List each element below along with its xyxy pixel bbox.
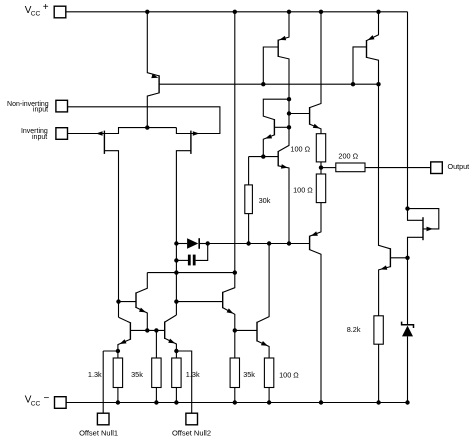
svg-text:30k: 30k bbox=[259, 196, 271, 205]
wire R8 bottom bbox=[234, 388, 236, 403]
node Q10e/Q11b bbox=[261, 154, 265, 158]
wire R5-R6 bbox=[320, 162, 322, 174]
transistor Q10 emitter arrow bbox=[265, 134, 272, 139]
resistor R4 30k bbox=[245, 185, 253, 214]
wire zener top bbox=[407, 258, 409, 325]
wire Q1 base rail y84 bbox=[159, 83, 378, 85]
terminal offset null 2 bbox=[186, 413, 198, 425]
node Q6 base bbox=[116, 299, 120, 303]
wire ON2 link bbox=[176, 351, 191, 413]
capacitor C1 left wire bbox=[176, 259, 188, 261]
node comp/Q11e bbox=[287, 241, 291, 245]
node R2top/line330 bbox=[154, 328, 158, 332]
transistor Q2 emitter arrow bbox=[96, 131, 103, 136]
wire Q12 collector bbox=[310, 12, 321, 108]
node V-/R3 bbox=[174, 400, 178, 404]
wire Q3 base bbox=[176, 151, 191, 315]
wire Q1 emitter bbox=[147, 12, 159, 76]
wire Q10 emitter bbox=[263, 135, 274, 157]
wire comp line bbox=[208, 243, 310, 245]
wire Q15 base bbox=[408, 209, 424, 221]
node output-tap bbox=[319, 165, 323, 169]
svg-text:1.3k: 1.3k bbox=[186, 370, 200, 379]
svg-text:−: − bbox=[44, 393, 50, 404]
wire cap right bbox=[196, 244, 208, 261]
transistor Q13 bar bbox=[309, 236, 311, 250]
wire Q11 base bbox=[249, 156, 279, 158]
resistor R9 100 bbox=[264, 358, 273, 388]
transistor Q5 bar bbox=[222, 292, 224, 308]
wire Q9 base bbox=[353, 47, 367, 84]
wire V+ to Q5 bbox=[223, 12, 235, 293]
wire Q5 emitter bbox=[223, 308, 235, 358]
wire x407 upper bbox=[407, 12, 409, 209]
wire Q16 emitter bbox=[257, 341, 269, 358]
transistor Q16 emitter arrow bbox=[261, 341, 268, 346]
node Q8 base/rail bbox=[261, 82, 265, 86]
svg-text:1.3k: 1.3k bbox=[88, 370, 102, 379]
node V+/Q9 bbox=[376, 10, 380, 14]
svg-text:100 Ω: 100 Ω bbox=[290, 145, 310, 154]
wire line330r bbox=[235, 329, 257, 331]
wire R2 top bbox=[155, 330, 157, 358]
node diode anode bbox=[174, 241, 178, 245]
wire R2 bottom bbox=[155, 388, 157, 403]
node Q14 base bbox=[405, 256, 409, 260]
transistor Q12 bar bbox=[309, 107, 311, 125]
transistor Q13 emitter arrow bbox=[311, 231, 318, 236]
terminal Vcc+ bbox=[54, 6, 66, 18]
wire Q8 base bbox=[263, 47, 278, 84]
transistor Q7 bar bbox=[129, 322, 131, 340]
node V+/x235 bbox=[233, 10, 237, 14]
node diode cathode bbox=[206, 241, 210, 245]
node Q8c/Q12b bbox=[287, 111, 291, 115]
svg-text:8.2k: 8.2k bbox=[347, 325, 361, 334]
wire Q15 bottom bbox=[408, 237, 424, 257]
node V-/D2 bbox=[405, 400, 409, 404]
transistor Q3 bar bbox=[190, 131, 192, 154]
node Q8c/Q10b bbox=[287, 125, 291, 129]
wire V+ rail bbox=[66, 11, 408, 13]
wire Q14 base bbox=[390, 257, 407, 259]
resistor R8 35k bbox=[230, 358, 239, 388]
wire line272 bbox=[147, 272, 235, 274]
resistor R3 1.3k bbox=[172, 358, 181, 388]
wire 30k top bbox=[248, 157, 250, 185]
wire to R7 bbox=[321, 167, 336, 169]
wire Q10 collector bbox=[263, 99, 289, 119]
wire Q3 collector step bbox=[176, 128, 191, 134]
wire Q16 collector bbox=[257, 244, 269, 323]
transistor Q4 bar bbox=[164, 322, 166, 339]
resistor R6 100 bbox=[316, 174, 325, 203]
wire V- rail bbox=[66, 402, 407, 404]
transistor Q14 emitter arrow bbox=[380, 265, 387, 269]
node Q6e/line330 bbox=[145, 328, 149, 332]
svg-text:input: input bbox=[33, 107, 48, 114]
transistor Q12 emitter arrow bbox=[313, 124, 320, 129]
node tail bbox=[145, 125, 149, 129]
svg-text:Offset Null1: Offset Null1 bbox=[79, 429, 118, 438]
wire Q13 emitter bbox=[310, 203, 321, 237]
svg-text:100 Ω: 100 Ω bbox=[293, 186, 313, 195]
wire Q2 collector step bbox=[104, 128, 176, 134]
wire Q7 base line bbox=[130, 329, 164, 331]
wire ON1 link bbox=[103, 351, 118, 358]
transistor Q8 bar bbox=[277, 40, 279, 57]
wire R9 bottom bbox=[268, 388, 270, 403]
wire Q6 base bbox=[119, 301, 137, 303]
svg-text:200 Ω: 200 Ω bbox=[338, 151, 358, 160]
terminal output bbox=[431, 162, 443, 174]
wire Q11 emitter bbox=[278, 166, 289, 244]
wire Q5 base bbox=[176, 301, 222, 303]
node V-/R1 bbox=[116, 400, 120, 404]
svg-text:Offset Null2: Offset Null2 bbox=[172, 429, 211, 438]
transistor Q1 bar bbox=[158, 75, 160, 93]
wire Q9 collector bbox=[367, 57, 391, 248]
wire Q1 collector bbox=[147, 93, 159, 128]
wire R3 bottom bbox=[175, 388, 177, 403]
svg-text:CC: CC bbox=[31, 400, 41, 407]
wire ON1 drop bbox=[102, 351, 104, 413]
node Q5 base/Q4c bbox=[174, 299, 178, 303]
wire Q12 emitter bbox=[310, 124, 321, 134]
wire Q6 collector bbox=[136, 273, 147, 293]
node Q9 base/rail bbox=[351, 82, 355, 86]
node ON1/R1 bbox=[116, 349, 120, 353]
node Q9c/rail bbox=[376, 82, 380, 86]
resistor R7 200 bbox=[336, 163, 365, 172]
transistor Q14 bar bbox=[389, 248, 391, 267]
wire Q13 collector bbox=[310, 250, 321, 403]
node V-/R10 bbox=[376, 400, 380, 404]
svg-text:100 Ω: 100 Ω bbox=[279, 370, 299, 379]
node V-/R2 bbox=[154, 400, 158, 404]
wire Q4 emitter bbox=[165, 338, 177, 358]
svg-text:35k: 35k bbox=[131, 370, 143, 379]
node line272/x235 bbox=[233, 270, 237, 274]
transistor Q2 bar bbox=[103, 131, 105, 154]
node Q4e/R3 bbox=[174, 349, 178, 353]
resistor R5 100 bbox=[316, 134, 325, 162]
node Q15 top bbox=[405, 206, 409, 210]
transistor Q1 emitter arrow bbox=[151, 74, 158, 78]
wire Q9 emitter bbox=[367, 12, 379, 41]
svg-text:CC: CC bbox=[31, 11, 41, 18]
svg-text:35k: 35k bbox=[243, 370, 255, 379]
wire zener bottom bbox=[407, 336, 409, 402]
wire Q6 emitter bbox=[136, 307, 147, 330]
wire Q14 emitter bbox=[379, 267, 391, 316]
node V-/Q13 bbox=[319, 400, 323, 404]
wire inv input bbox=[68, 133, 105, 135]
wire R7 to output bbox=[365, 167, 431, 169]
transistor Q5 emitter arrow bbox=[227, 308, 234, 313]
transistor Q3 emitter arrow bbox=[193, 131, 200, 136]
zener D2 bbox=[402, 322, 414, 328]
wire diode anode bbox=[176, 243, 187, 245]
wire non-inv input bbox=[68, 107, 220, 134]
svg-text:+: + bbox=[43, 2, 49, 13]
transistor Q15 emitter arrow bbox=[427, 227, 434, 232]
node V+/Q1 bbox=[145, 10, 149, 14]
transistor Q16 bar bbox=[256, 322, 258, 342]
transistor Q4 emitter arrow bbox=[168, 339, 175, 344]
svg-text:Output: Output bbox=[448, 162, 470, 171]
svg-text:input: input bbox=[32, 134, 47, 141]
node V-/R9 bbox=[267, 400, 271, 404]
terminal offset null 1 bbox=[97, 413, 109, 425]
resistor R10 8.2k bbox=[374, 316, 383, 344]
node comp/Q16c bbox=[267, 241, 271, 245]
wire Q12 base bbox=[289, 113, 310, 115]
wire R1 bottom bbox=[117, 388, 119, 403]
capacitor C1 bbox=[188, 255, 191, 266]
node V+/Q8 bbox=[287, 10, 291, 14]
node cap left bbox=[174, 258, 178, 262]
transistor Q10 bar bbox=[273, 119, 275, 135]
wire Q15 collector loop bbox=[408, 209, 439, 229]
resistor R2 35k bbox=[152, 358, 161, 388]
transistor Q6 emitter arrow bbox=[139, 308, 146, 313]
wire Q8 emitter bbox=[278, 12, 289, 40]
transistor Q11 emitter arrow bbox=[281, 164, 288, 169]
wire R10 bottom bbox=[378, 344, 380, 402]
node line272/Q3base bbox=[174, 270, 178, 274]
node Q5e/line330r bbox=[233, 328, 237, 332]
node V-/R8 bbox=[233, 400, 237, 404]
transistor Q6 bar bbox=[135, 292, 137, 308]
node comp/30k bbox=[246, 241, 250, 245]
wire Q7 collector bbox=[119, 317, 131, 323]
node Q8c/Q10c bbox=[287, 97, 291, 101]
wire 30k bottom bbox=[248, 214, 250, 244]
terminal inverting input bbox=[56, 128, 68, 140]
wire Q10 base bbox=[274, 126, 289, 128]
diode D1 bbox=[187, 238, 198, 249]
terminal Vcc- bbox=[55, 397, 67, 409]
transistor Q7 emitter arrow bbox=[120, 339, 127, 344]
transistor Q9 bar bbox=[366, 40, 368, 58]
node V+/Q12 bbox=[319, 10, 323, 14]
terminal non-inverting input bbox=[56, 100, 68, 112]
wire Q2 base bbox=[104, 151, 118, 318]
transistor Q8 emitter arrow bbox=[279, 36, 286, 40]
wire Q7 emitter bbox=[118, 339, 130, 351]
transistor Q15 bar bbox=[422, 217, 424, 240]
transistor Q9 emitter arrow bbox=[368, 35, 375, 40]
wire Q4 collector bbox=[165, 315, 177, 322]
wire Q8 collector bbox=[278, 56, 289, 151]
resistor R1 1.3k bbox=[113, 358, 122, 388]
transistor Q11 bar bbox=[277, 151, 279, 166]
